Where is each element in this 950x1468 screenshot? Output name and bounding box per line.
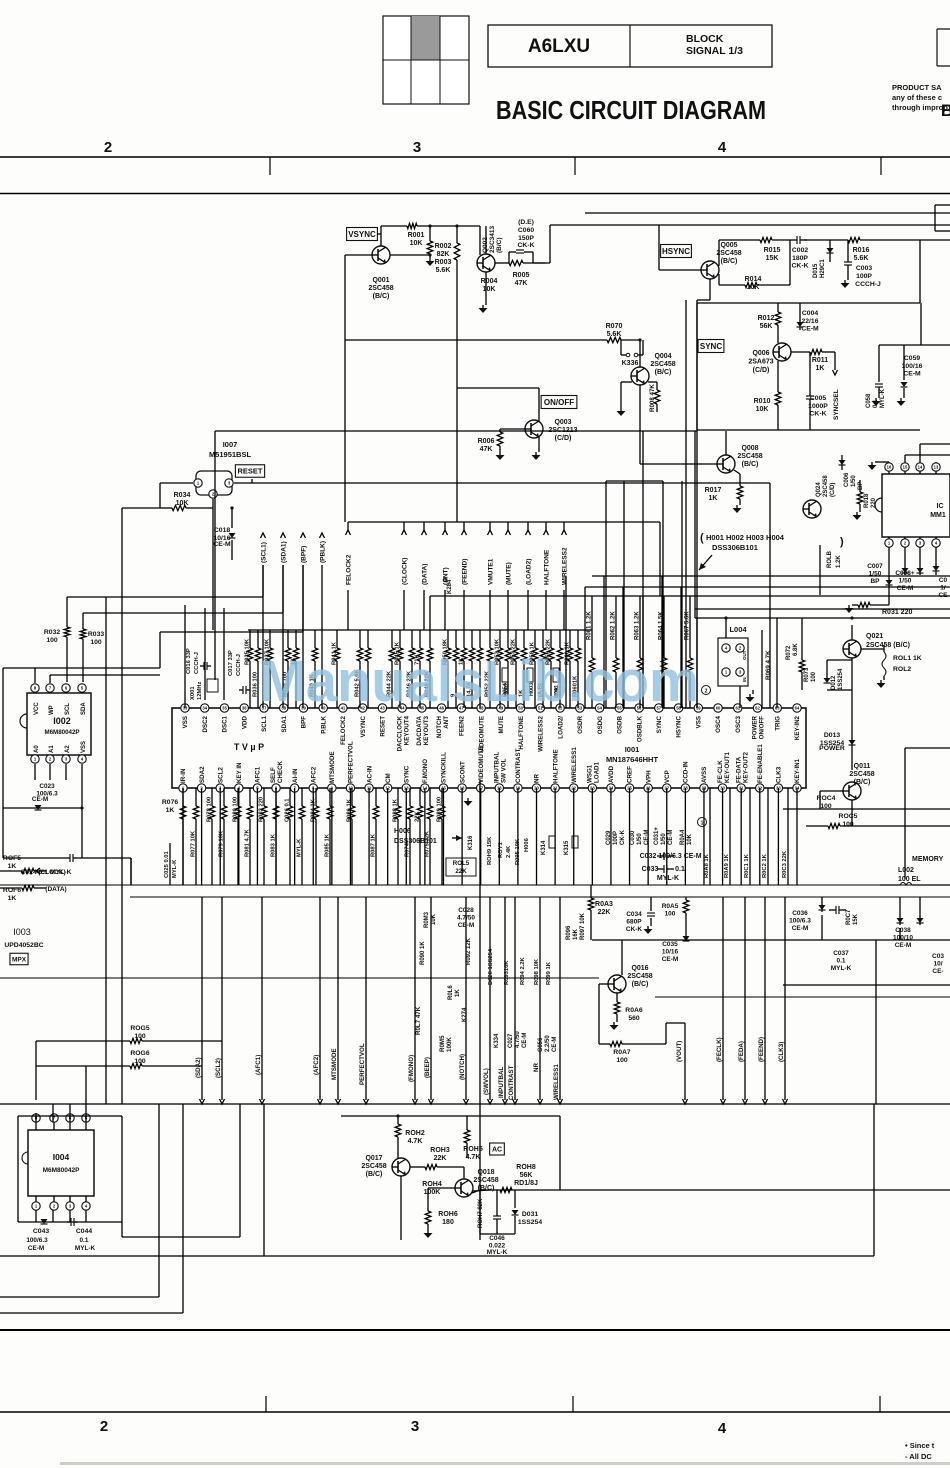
svg-text:SELF: SELF — [270, 767, 277, 783]
svg-text:R088 1K: R088 1K — [393, 798, 399, 822]
resistor 9 — [455, 630, 457, 648]
capacitor C002 — [790, 239, 797, 241]
svg-text:2: 2 — [705, 689, 708, 695]
svg-text:C018: C018 — [214, 527, 230, 534]
svg-text:CE-M: CE-M — [895, 942, 912, 949]
svg-text:(DATA): (DATA) — [45, 886, 66, 893]
resistor R075 22K — [429, 788, 431, 806]
svg-text:R002: R002 — [435, 243, 452, 250]
svg-text:Q004: Q004 — [654, 353, 671, 360]
svg-text:C004: C004 — [802, 310, 818, 317]
svg-text:WP: WP — [49, 705, 55, 715]
wire — [538, 388, 540, 421]
net (BPF) — [301, 533, 306, 538]
svg-text:R0C2 1K: R0C2 1K — [762, 853, 768, 878]
wire — [212, 508, 214, 630]
svg-text:K316: K316 — [468, 835, 474, 850]
svg-text:MEMORY: MEMORY — [912, 856, 944, 863]
svg-text:ROH3: ROH3 — [430, 1147, 450, 1154]
wires to L004 — [696, 618, 698, 708]
svg-text:1K: 1K — [166, 807, 175, 814]
wire — [697, 429, 920, 431]
svg-text:C03: C03 — [932, 953, 944, 960]
net (FEEND) — [764, 897, 766, 1100]
svg-text:22K: 22K — [415, 811, 421, 822]
svg-text:C032: C032 — [640, 853, 657, 860]
svg-text:IR-IN: IR-IN — [180, 768, 187, 783]
IC MM1 body — [882, 474, 950, 537]
svg-text:C059: C059 — [904, 355, 920, 362]
svg-text:P.BLK: P.BLK — [320, 715, 327, 733]
resistor R041 1K — [336, 630, 338, 648]
svg-text:C056: C056 — [538, 1037, 544, 1052]
svg-text:2SC458: 2SC458 — [737, 453, 762, 460]
svg-text:K314: K314 — [541, 840, 547, 855]
svg-text:2SC458: 2SC458 — [361, 1163, 386, 1170]
svg-text:KEYOUT3: KEYOUT3 — [423, 715, 430, 745]
net NR — [539, 897, 541, 1100]
svg-text:R081 4.7K: R081 4.7K — [245, 828, 251, 857]
svg-text:WSG1: WSG1 — [587, 764, 594, 783]
svg-text:CK-K: CK-K — [810, 411, 827, 418]
svg-text:4: 4 — [718, 1420, 727, 1437]
resistor R0C2 1K — [767, 788, 769, 885]
svg-text:CONTRAST: CONTRAST — [515, 748, 522, 783]
svg-text:100/6.3: 100/6.3 — [26, 1237, 48, 1244]
svg-text:R063 1.2K: R063 1.2K — [635, 611, 641, 640]
svg-text:3: 3 — [411, 1418, 419, 1435]
svg-text:D015: D015 — [813, 263, 819, 278]
svg-text:R079 10K: R079 10K — [219, 830, 225, 857]
svg-text:CE-M: CE-M — [552, 1037, 558, 1052]
svg-text:C003: C003 — [856, 265, 872, 272]
resistor R083 1K — [275, 788, 277, 806]
svg-text:VSYNC: VSYNC — [348, 230, 376, 239]
svg-text:34: 34 — [202, 706, 207, 711]
svg-text:C038: C038 — [895, 927, 911, 934]
svg-text:R004: R004 — [481, 278, 498, 285]
svg-text:R008 47K: R008 47K — [649, 384, 656, 412]
resistor R016 — [828, 239, 848, 241]
svg-text:R035 10K: R035 10K — [245, 638, 251, 665]
svg-text:2SC458: 2SC458 — [823, 475, 829, 497]
svg-text:AVDD: AVDD — [608, 765, 615, 783]
svg-text:R0A8 1K: R0A8 1K — [704, 853, 710, 878]
svg-text:I007: I007 — [223, 440, 238, 449]
svg-text:ON/OFF: ON/OFF — [544, 398, 574, 407]
net (SDA2) — [201, 897, 203, 1100]
svg-text:CCCH-J: CCCH-J — [194, 652, 200, 674]
svg-text:1/50: 1/50 — [661, 833, 667, 845]
svg-text:C036: C036 — [792, 910, 808, 917]
svg-text:SCONT: SCONT — [459, 761, 466, 783]
svg-text:DACCLOCK: DACCLOCK — [396, 715, 403, 751]
svg-text:Q011: Q011 — [854, 763, 871, 770]
svg-text:(CLOCK): (CLOCK) — [38, 869, 65, 876]
net bus upper — [348, 521, 660, 523]
resistor R0C1 1K — [749, 788, 751, 885]
svg-text:Q017: Q017 — [365, 1155, 382, 1162]
svg-text:ROH2: ROH2 — [405, 1130, 425, 1137]
svg-text:R033: R033 — [88, 631, 104, 638]
svg-text:M6M80042P: M6M80042P — [43, 1167, 81, 1174]
wires I002 bottom — [34, 764, 36, 780]
svg-text:MTSMODE: MTSMODE — [329, 751, 336, 783]
svg-text:R006: R006 — [478, 438, 495, 445]
svg-text:ROL2: ROL2 — [893, 666, 911, 673]
svg-text:60: 60 — [716, 706, 721, 711]
svg-text:CK-K: CK-K — [620, 829, 626, 845]
svg-text:R0A3: R0A3 — [595, 901, 613, 908]
svg-text:(FEEND): (FEEND) — [758, 1037, 765, 1062]
svg-text:C006: C006 — [844, 472, 850, 487]
svg-text:R016: R016 — [853, 247, 870, 254]
svg-text:CE-M: CE-M — [213, 541, 231, 548]
svg-text:SCL2: SCL2 — [217, 767, 224, 783]
svg-text:1/50: 1/50 — [637, 833, 643, 845]
page-edge stub — [934, 205, 936, 231]
svg-text:(: ( — [700, 532, 704, 544]
wire — [659, 269, 701, 271]
resistor R046 22K — [411, 630, 413, 648]
svg-text:AFC1: AFC1 — [255, 766, 262, 783]
svg-text:R069 4.7K: R069 4.7K — [765, 650, 772, 680]
svg-text:10K: 10K — [687, 833, 693, 845]
wire — [400, 1176, 402, 1240]
label HSYNC — [661, 245, 692, 258]
svg-text:• Since t: • Since t — [905, 1441, 935, 1450]
resistor R036 100 — [257, 630, 259, 648]
label RESET — [235, 465, 264, 478]
svg-text:ROF5: ROF5 — [3, 855, 21, 862]
svg-text:Q008: Q008 — [741, 445, 758, 452]
resistor R050 18K — [447, 630, 449, 648]
svg-text:C016 33P: C016 33P — [186, 648, 192, 674]
svg-text:(C/D): (C/D) — [555, 435, 572, 442]
resistor R089 100 — [441, 788, 443, 806]
svg-text:I002: I002 — [53, 716, 71, 726]
page-edge fragment — [937, 29, 950, 66]
resistor R035 10K — [249, 630, 251, 648]
svg-text:4: 4 — [718, 139, 727, 156]
svg-text:R0A6: R0A6 — [625, 1007, 643, 1014]
svg-text:2: 2 — [104, 139, 112, 156]
resistor R038 100 — [287, 630, 289, 648]
svg-text:ROH4: ROH4 — [422, 1181, 442, 1188]
svg-text:C007: C007 — [867, 563, 883, 570]
wires — [783, 808, 950, 810]
wires — [904, 748, 906, 879]
resistor R0C3 22K — [787, 788, 789, 885]
bus double lines right — [695, 608, 950, 610]
svg-text:ON/OFF: ON/OFF — [759, 716, 766, 740]
svg-text:10K: 10K — [431, 913, 437, 925]
svg-text:10K: 10K — [483, 286, 496, 293]
svg-text:R094 2.2K: R094 2.2K — [520, 956, 526, 985]
svg-text:(B/C): (B/C) — [632, 981, 649, 988]
resistor R077 10K — [195, 788, 197, 806]
ground — [485, 298, 487, 305]
svg-text:SYNC: SYNC — [656, 715, 663, 733]
IC I001 bottom pins — [179, 784, 187, 792]
svg-text:150P: 150P — [518, 235, 534, 242]
svg-text:MYL-K: MYL-K — [831, 965, 852, 972]
svg-text:56K: 56K — [760, 323, 773, 330]
svg-text:R011: R011 — [812, 357, 828, 364]
resistor R014 — [718, 274, 720, 285]
svg-text:POWER: POWER — [752, 715, 759, 739]
long wires bottom — [0, 1103, 950, 1105]
IC I001 MN187646HHT body — [172, 708, 806, 788]
label VSYNC — [347, 228, 378, 241]
svg-text:AC: AC — [492, 1147, 502, 1154]
svg-text:VMUTE1: VMUTE1 — [488, 558, 495, 585]
svg-text:(BEEP): (BEEP) — [424, 1057, 431, 1078]
resistor R081 4.7K — [249, 788, 251, 806]
label SYNC — [698, 340, 724, 353]
svg-text:(C/D): (C/D) — [830, 483, 836, 497]
wires long left verticals — [105, 597, 107, 1104]
svg-text:OSDB: OSDB — [617, 715, 624, 733]
wire to right — [533, 262, 550, 264]
resistor — [182, 788, 184, 806]
svg-text:CE-M: CE-M — [897, 585, 914, 592]
svg-text:180P: 180P — [792, 255, 808, 262]
wire left rail — [122, 507, 160, 509]
svg-text:FE-DATA: FE-DATA — [735, 756, 742, 783]
net (PBLK) — [320, 533, 325, 538]
svg-text:A1: A1 — [49, 745, 55, 753]
svg-text:INPUTBAL: INPUTBAL — [494, 752, 501, 783]
svg-text:R099 1K: R099 1K — [546, 961, 552, 985]
svg-text:FELOCK2: FELOCK2 — [340, 715, 347, 744]
resistor R060 1K — [569, 630, 571, 648]
svg-text:MN187646HHT: MN187646HHT — [606, 755, 659, 764]
svg-text:R062 1.2K: R062 1.2K — [611, 611, 617, 640]
ground — [427, 1230, 429, 1233]
svg-text:CLK3: CLK3 — [776, 766, 783, 783]
svg-text:15K: 15K — [766, 255, 779, 262]
resistor C026 0.1 — [289, 788, 291, 806]
svg-text:MYL-K: MYL-K — [297, 838, 303, 857]
svg-text:(SWVOL): (SWVOL) — [483, 1068, 490, 1095]
svg-text:C017 33P: C017 33P — [228, 650, 234, 676]
svg-text:SYNC: SYNC — [403, 765, 410, 783]
wire — [904, 455, 906, 462]
net (MUTE) — [507, 522, 509, 530]
resistor R074 — [409, 788, 411, 806]
svg-text:INPUTBAL: INPUTBAL — [498, 1067, 505, 1098]
svg-text:(VOUT): (VOUT) — [676, 1041, 683, 1062]
svg-text:2SC458 (B/C): 2SC458 (B/C) — [866, 642, 910, 649]
svg-text:DSC1: DSC1 — [222, 715, 229, 732]
svg-text:5.6K: 5.6K — [854, 255, 869, 262]
svg-text:0.1: 0.1 — [675, 866, 685, 873]
svg-text:(B/C): (B/C) — [366, 1171, 383, 1178]
svg-text:D013: D013 — [824, 732, 840, 739]
wire long top — [550, 224, 950, 226]
svg-text:(B/C): (B/C) — [742, 461, 759, 468]
svg-text:WIRELESS2: WIRELESS2 — [562, 547, 569, 585]
svg-text:100: 100 — [46, 637, 58, 644]
svg-text:2SC458: 2SC458 — [849, 771, 874, 778]
resistor R0A8 1K — [709, 788, 711, 885]
svg-text:R077 10K: R077 10K — [191, 830, 197, 857]
svg-text:SIGNAL 1/3: SIGNAL 1/3 — [686, 45, 743, 57]
label AC — [490, 1143, 505, 1155]
resistor R015 — [718, 240, 720, 266]
svg-text:R017: R017 — [705, 487, 722, 494]
svg-text:100: 100 — [134, 1033, 146, 1040]
svg-text:B: B — [941, 101, 950, 120]
transistor Q017 — [392, 1158, 410, 1176]
svg-text:R0C7: R0C7 — [846, 909, 852, 925]
resistor R059 22K — [550, 630, 552, 648]
resistor R002 — [428, 224, 431, 227]
svg-text:2SA673: 2SA673 — [748, 359, 773, 366]
svg-text:BPF: BPF — [301, 716, 308, 729]
resistor R078 100 — [211, 788, 213, 806]
svg-text:1/: 1/ — [940, 585, 946, 592]
svg-text:100P: 100P — [613, 831, 619, 845]
svg-text:A0: A0 — [34, 745, 40, 753]
resistor R052 22K — [489, 630, 491, 648]
wire bus left1 — [67, 596, 263, 598]
svg-text:VSS: VSS — [182, 716, 189, 728]
resistor R048 22K — [429, 630, 431, 648]
svg-text:NOTCH: NOTCH — [436, 715, 443, 738]
wire bus left2 — [83, 612, 283, 614]
net HALFTONE — [545, 522, 547, 530]
net (SCL2) — [221, 897, 223, 1100]
svg-text:C023: C023 — [39, 783, 55, 790]
transistor Q005 — [701, 261, 719, 279]
svg-text:0.1: 0.1 — [80, 1237, 89, 1244]
svg-text:100/16: 100/16 — [902, 363, 923, 370]
resistor R0A9 1K — [729, 788, 731, 885]
svg-text:R082 220: R082 220 — [259, 797, 265, 822]
svg-text:R085 1K: R085 1K — [325, 833, 331, 857]
svg-text:2: 2 — [100, 1418, 108, 1435]
svg-text:C033: C033 — [642, 866, 659, 873]
svg-text:(MUTE): (MUTE) — [506, 562, 513, 585]
svg-text:56K: 56K — [520, 1172, 533, 1179]
net INPUTBAL — [504, 897, 506, 1100]
svg-text:4.7/50: 4.7/50 — [457, 915, 475, 922]
svg-text:1000P: 1000P — [808, 403, 828, 410]
svg-text:1/50: 1/50 — [899, 578, 912, 585]
net (SWVOL) — [489, 897, 491, 1100]
svg-text:R090 1K: R090 1K — [420, 941, 426, 965]
svg-text:10K: 10K — [747, 284, 760, 291]
svg-text:2SC458: 2SC458 — [368, 285, 393, 292]
svg-text:SYNC: SYNC — [700, 342, 722, 351]
resistor R057 22K — [515, 630, 517, 648]
wire — [827, 689, 852, 691]
ground — [752, 690, 754, 694]
svg-text:R0L7 47K: R0L7 47K — [415, 1006, 422, 1035]
svg-text:DSC2: DSC2 — [202, 715, 209, 732]
svg-text:SYNCKILL: SYNCKILL — [441, 752, 448, 783]
resistor R054 — [507, 630, 509, 648]
svg-text:NR: NR — [534, 774, 541, 783]
svg-text:MYL-K: MYL-K — [880, 388, 886, 408]
svg-text:R078 100: R078 100 — [207, 797, 213, 822]
svg-text:2.4K: 2.4K — [506, 845, 512, 858]
svg-text:100: 100 — [616, 1057, 628, 1064]
svg-text:Q024: Q024 — [816, 482, 822, 497]
svg-text:R001: R001 — [408, 232, 425, 239]
svg-text:MUTE: MUTE — [498, 716, 505, 734]
net (FECLK) — [722, 897, 724, 1100]
svg-text:CK-K: CK-K — [626, 926, 643, 933]
resistor R087 1K — [375, 788, 377, 806]
svg-text:2SC458: 2SC458 — [627, 973, 652, 980]
svg-text:Q016: Q016 — [631, 965, 648, 972]
svg-text:47K: 47K — [480, 446, 493, 453]
net (CLK3) — [784, 897, 786, 1100]
svg-text:MM1: MM1 — [930, 512, 946, 519]
net VOUT — [665, 1023, 667, 1044]
net (NOTCH) — [465, 897, 467, 1100]
resistor 14.7K — [471, 630, 473, 648]
svg-text:47K: 47K — [515, 280, 528, 287]
svg-text:100: 100 — [134, 1058, 146, 1065]
svg-text:through improp: through improp — [892, 103, 948, 112]
transistor Q024 — [803, 500, 821, 518]
svg-text:16K: 16K — [573, 928, 579, 940]
svg-text:100P: 100P — [856, 273, 872, 280]
wires I002 top — [34, 668, 36, 683]
net (DATA) — [423, 522, 425, 530]
svg-text:IC: IC — [937, 503, 944, 510]
svg-text:VDD: VDD — [241, 715, 248, 729]
svg-text:AVSS: AVSS — [701, 767, 708, 783]
svg-text:R0A9 1K: R0A9 1K — [724, 853, 730, 878]
svg-text:OSDG: OSDG — [597, 716, 604, 734]
svg-text:13: 13 — [934, 465, 939, 470]
svg-text:MYL-K: MYL-K — [172, 859, 178, 878]
svg-text:LOAD1: LOAD1 — [594, 761, 601, 783]
svg-text:C025 0.01: C025 0.01 — [164, 850, 170, 878]
ground — [736, 505, 738, 508]
svg-text:14: 14 — [918, 465, 923, 470]
svg-text:A2: A2 — [65, 745, 71, 753]
svg-text:100/6.3: 100/6.3 — [789, 918, 811, 925]
svg-text:R0L6: R0L6 — [448, 985, 454, 1000]
svg-text:1K: 1K — [816, 365, 825, 372]
svg-text:MTSMODE: MTSMODE — [331, 1048, 338, 1080]
svg-text:MYL-K: MYL-K — [75, 1245, 96, 1252]
svg-text:R036 100: R036 100 — [253, 672, 259, 697]
svg-text:H006: H006 — [524, 837, 530, 852]
wire base — [640, 463, 717, 465]
svg-text:A6LXU: A6LXU — [528, 36, 590, 57]
svg-text:16: 16 — [887, 465, 892, 470]
transistor Q008 — [717, 455, 735, 473]
svg-text:H29C1: H29C1 — [820, 259, 826, 278]
resistor R067 5.6K — [689, 596, 691, 658]
wire — [344, 340, 346, 431]
svg-text:FE-CLK: FE-CLK — [717, 760, 724, 783]
svg-text:R098 10K: R098 10K — [534, 958, 540, 985]
svg-text:RESET: RESET — [237, 467, 262, 476]
resistor R080 100 — [237, 788, 239, 806]
svg-text:R032: R032 — [44, 629, 60, 636]
resistor R082 220 — [263, 788, 265, 806]
svg-text:100: 100 — [665, 911, 676, 918]
svg-text:BASIC CIRCUIT DIAGRAM: BASIC CIRCUIT DIAGRAM — [496, 97, 766, 125]
